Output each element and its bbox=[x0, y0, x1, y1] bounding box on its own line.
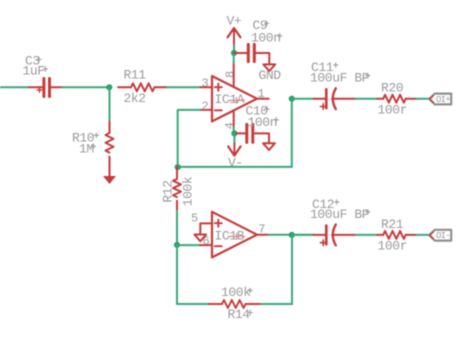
ground GND symbol bbox=[259, 64, 282, 82]
wire node A down bbox=[109, 87, 111, 121]
svg-text:100n: 100n bbox=[248, 115, 278, 130]
node R12 tap junction bbox=[175, 164, 181, 170]
capacitor C3 bbox=[23, 54, 63, 97]
svg-text:OI-: OI- bbox=[436, 231, 450, 241]
capacitor C10 bbox=[235, 104, 278, 144]
svg-text:OI+: OI+ bbox=[436, 95, 450, 105]
svg-text:100uF BP: 100uF BP bbox=[310, 207, 370, 222]
resistor R20 bbox=[377, 81, 416, 118]
wire feedback bottom bbox=[178, 166, 292, 168]
svg-text:R14: R14 bbox=[228, 307, 251, 322]
supply V+ bbox=[227, 14, 242, 46]
svg-text:100k: 100k bbox=[180, 176, 195, 206]
svg-text:3: 3 bbox=[202, 76, 209, 90]
wire feedback right riser bbox=[291, 99, 293, 167]
wire node to IC1B pin6 bbox=[177, 244, 200, 246]
supply V- arrow bbox=[228, 144, 243, 171]
capacitor C12 bbox=[310, 197, 370, 246]
svg-text:100r: 100r bbox=[378, 103, 408, 118]
resistor R12 bbox=[161, 167, 196, 211]
resistor R14 bbox=[209, 285, 261, 322]
capacitor C9 bbox=[234, 18, 282, 65]
connector pad OI- bbox=[429, 230, 451, 241]
wire C3 to node A bbox=[62, 86, 109, 88]
svg-text:R20: R20 bbox=[381, 81, 403, 96]
wire output1 to C11 bbox=[292, 98, 314, 100]
pin 8 stub bbox=[233, 63, 235, 87]
node A junction bbox=[106, 84, 112, 90]
resistor R21 bbox=[377, 217, 416, 254]
node pin6 junction bbox=[174, 242, 180, 248]
wire R21 to pad bbox=[417, 234, 430, 236]
ground (filled arrow) below R10 bbox=[103, 176, 116, 184]
node V- junction area: wire pin4 to node bbox=[233, 127, 235, 133]
node output 1 junction bbox=[289, 96, 295, 102]
svg-text:5: 5 bbox=[191, 211, 198, 225]
svg-text:2k2: 2k2 bbox=[124, 91, 146, 106]
svg-text:100r: 100r bbox=[378, 239, 408, 254]
wire loop2 bottom left bbox=[177, 303, 209, 305]
pin 1 output stub bbox=[257, 98, 269, 100]
ground symbol below C10 bbox=[263, 143, 275, 150]
pin 7 output stub bbox=[257, 234, 269, 236]
node V- junction bbox=[231, 130, 237, 136]
ground symbol at IC1B pin5 bbox=[194, 235, 206, 242]
wire V+ to node bbox=[233, 45, 235, 53]
wire input left bbox=[0, 86, 29, 88]
svg-text:R21: R21 bbox=[381, 217, 404, 232]
svg-text:4: 4 bbox=[223, 122, 237, 129]
svg-text:R12: R12 bbox=[161, 180, 176, 202]
wire R20 to pad bbox=[417, 98, 430, 100]
svg-text:R11: R11 bbox=[124, 68, 147, 83]
wire node to pin8 bbox=[233, 53, 235, 63]
capacitor C11 bbox=[310, 60, 370, 109]
wire loop2 right riser bbox=[291, 235, 293, 304]
wire C11 to R20 bbox=[356, 98, 377, 100]
svg-text:100uF BP: 100uF BP bbox=[310, 71, 370, 86]
svg-text:V+: V+ bbox=[227, 14, 242, 29]
svg-text:1uF: 1uF bbox=[23, 64, 45, 79]
connector pad OI+ bbox=[429, 94, 451, 105]
svg-text:100n: 100n bbox=[251, 30, 281, 45]
pin 4 stub bbox=[233, 111, 235, 127]
node V+ junction bbox=[231, 50, 237, 56]
wire IC1B output to node bbox=[269, 234, 314, 236]
resistor R11 bbox=[118, 68, 167, 107]
op-amp IC1B bbox=[191, 211, 269, 257]
wire C12 to R21 bbox=[356, 234, 377, 236]
wire node V- down bbox=[233, 133, 235, 143]
wire pin2 feedback elbow bbox=[178, 110, 201, 167]
svg-text:V-: V- bbox=[228, 156, 243, 171]
svg-text:8: 8 bbox=[223, 71, 237, 78]
resistor R10 bbox=[72, 122, 114, 176]
svg-text:IC1A: IC1A bbox=[215, 92, 245, 107]
wire output2 to C12 bbox=[292, 234, 314, 236]
wire loop2 bottom right bbox=[261, 303, 292, 305]
svg-text:GND: GND bbox=[259, 68, 282, 83]
wire R11 to IC1A pin3 bbox=[167, 86, 200, 88]
wire loop2 left riser bbox=[176, 245, 178, 304]
node output 2 junction bbox=[289, 232, 295, 238]
op-amp IC1A bbox=[200, 63, 268, 129]
svg-text:100k: 100k bbox=[221, 285, 251, 300]
wire R12 to pin6 node bbox=[176, 211, 178, 245]
svg-text:2: 2 bbox=[202, 99, 209, 113]
svg-text:1M: 1M bbox=[79, 142, 94, 157]
